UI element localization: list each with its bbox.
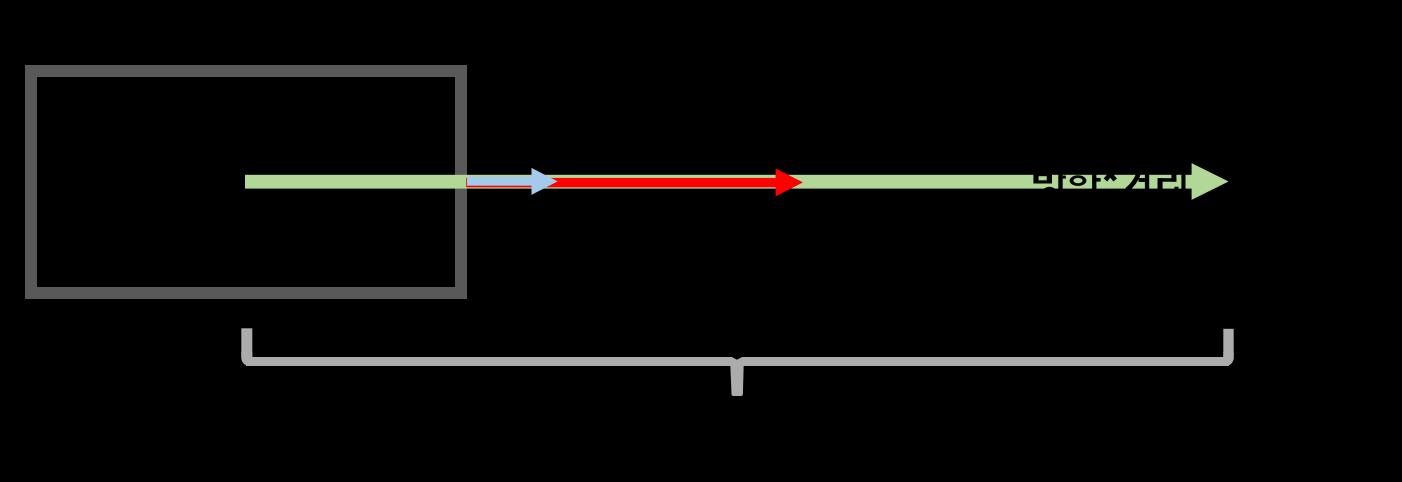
brace top center notch [732,357,742,360]
blue arrow [467,168,558,195]
red arrow [466,169,803,197]
brace right end [1223,329,1233,359]
green arrow (full ray) [245,163,1229,200]
glyph 향 : ㅑ tick [1095,178,1100,182]
glyph 방 : ㅂ bottom bar [1039,180,1047,183]
glyph 방 : ㅂ left vertical [1033,172,1038,184]
ㅎ ring hole (green) [1073,178,1082,183]
glyph 리 : ㄹ lower left vertical [1158,178,1163,190]
glyph 리 : ㄹ upper right vertical [1171,172,1176,182]
glyph 거 : ㄱ curved leg [1127,172,1139,190]
curly brace below (gray) [241,328,1233,396]
glyph 리 : ㄹ middle bar [1158,178,1177,182]
brace bar [246,357,1229,366]
glyph 리 : ㄹ bottom bar sliver [1175,187,1179,190]
glyph 리 : ㅣ vertical [1181,172,1185,191]
asterisk * lower half [1105,174,1115,180]
rectangle box (dark gray outline) [31,71,461,293]
glyph 방 : final ㅇ top arc [1042,187,1056,191]
brace center pointer [730,365,743,396]
glyph 거 : ㅓ vertical [1145,172,1149,191]
glyph 방 : ㅂ right vertical [1047,172,1052,184]
glyph 거 : ㅓ tick [1139,178,1145,182]
glyph 향 : ㅎ ring outer [1070,175,1087,186]
glyph 방 : ㅂ crossbar [1039,172,1047,176]
black text fragments "방향* 거리" visible over green arrow [1033,172,1185,191]
glyph 향 : ㅑ vertical [1092,172,1096,191]
glyph 방 : ㅏ vertical [1058,172,1062,191]
brace left end [241,328,252,357]
glyph 방 : ㅏ tick [1063,176,1066,179]
